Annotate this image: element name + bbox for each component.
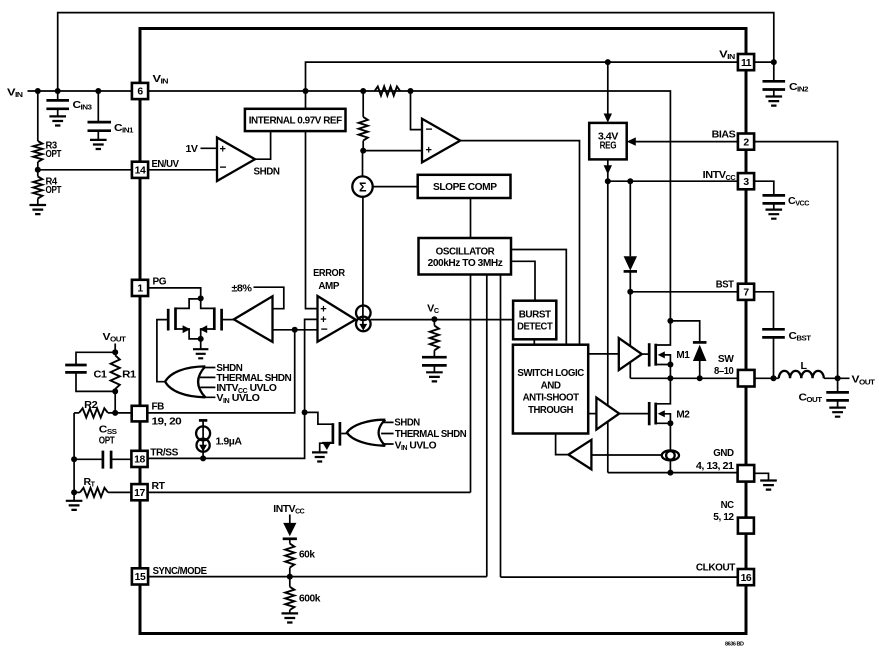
svg-text:15: 15	[135, 572, 146, 583]
transistor M1	[648, 343, 651, 366]
capacitor CIN3	[57, 91, 59, 100]
wire EN/UV	[38, 169, 217, 171]
svg-text:L: L	[801, 361, 807, 372]
transistor SS discharge FET	[305, 412, 333, 424]
driver M2 gate	[588, 413, 596, 415]
pin 14 EN/UV	[132, 162, 148, 178]
wire REF pass-through to error amp +	[306, 91, 318, 309]
svg-text:18: 18	[134, 455, 145, 466]
wire oscillator to RT	[470, 275, 472, 493]
wire oscillator to SYNC/MODE	[486, 275, 488, 577]
wire VIN top distribution	[58, 13, 774, 91]
svg-text:BIAS: BIAS	[712, 129, 736, 140]
op-amp PWM current comparator	[422, 119, 460, 163]
wire VIN to 3.4V REG with arrow	[607, 62, 609, 118]
svg-text:8–10: 8–10	[714, 366, 734, 377]
pin 18 TR/SS	[131, 451, 147, 467]
wire oscillator to CLKOUT	[500, 275, 502, 578]
wire VIN to pin 11	[306, 62, 747, 91]
wire sigma to slope comp	[373, 186, 418, 188]
box SWITCH LOGIC AND ANTI-SHOOT THROUGH	[513, 345, 588, 434]
svg-text:3: 3	[743, 177, 749, 188]
current sense element	[662, 450, 679, 460]
svg-text:OPT: OPT	[46, 185, 63, 196]
node sigma summer	[362, 151, 364, 177]
transistor M2	[648, 402, 651, 425]
ground CIN3	[49, 116, 66, 125]
resistor 60k	[289, 539, 291, 544]
svg-text:+: +	[426, 144, 432, 156]
svg-text:CLKOUT: CLKOUT	[696, 562, 736, 573]
wire BIAS to VOUT	[754, 142, 838, 379]
svg-text:200kHz TO 3MHz: 200kHz TO 3MHz	[428, 258, 503, 269]
wire VIN internal rail	[148, 91, 670, 321]
wire SHDN output to REF box	[255, 131, 271, 159]
svg-text:ERROR: ERROR	[313, 268, 345, 279]
wire driver return to GND rail	[607, 422, 609, 473]
wire R2/CSS/RT common	[73, 413, 75, 492]
svg-text:FB: FB	[152, 402, 164, 413]
svg-text:SW: SW	[718, 354, 734, 365]
pin 6 VIN	[132, 83, 148, 99]
wire OR gate 2 to FET gate	[341, 433, 348, 435]
svg-text:VIN UVLO: VIN UVLO	[216, 393, 260, 405]
svg-text:GND: GND	[713, 448, 733, 459]
svg-text:−: −	[426, 122, 433, 136]
svg-text:EN/UV: EN/UV	[152, 159, 180, 170]
wire FB to error amp minus and pm8 comparator	[273, 329, 318, 331]
svg-text:SYNC/MODE: SYNC/MODE	[153, 566, 208, 577]
svg-text:VIN UVLO: VIN UVLO	[395, 440, 437, 452]
svg-text:6: 6	[137, 87, 143, 98]
pin 15 SYNC/MODE	[132, 568, 148, 584]
logic-gate OR PG fault	[165, 366, 205, 397]
svg-text:OSCILLATOR: OSCILLATOR	[436, 246, 496, 257]
ground SS discharge FET	[312, 452, 327, 461]
svg-text:R1: R1	[122, 370, 136, 381]
wire INTVCC net	[608, 180, 738, 182]
svg-text:OPT: OPT	[99, 435, 116, 446]
wire CLKOUT internal	[501, 576, 738, 578]
pin 16 CLKOUT	[738, 569, 754, 585]
pin FB 19,20	[132, 406, 148, 422]
svg-text:11: 11	[741, 58, 752, 69]
capacitor CBST	[754, 292, 774, 330]
svg-text:NC: NC	[721, 500, 735, 511]
svg-text:RT: RT	[152, 481, 166, 492]
svg-text:−: −	[220, 160, 227, 174]
op-amp SHDN comparator	[217, 138, 255, 182]
svg-text:THERMAL SHDN: THERMAL SHDN	[395, 429, 466, 440]
diode M1 body	[670, 321, 699, 342]
wire oscillator to switch logic	[511, 250, 566, 345]
ground VC compensation	[426, 372, 443, 381]
wire INTVCC to lower driver	[607, 181, 609, 405]
svg-text:SWITCH LOGIC: SWITCH LOGIC	[517, 368, 584, 379]
svg-text:16: 16	[741, 573, 752, 584]
svg-text:M1: M1	[676, 350, 690, 361]
box BURST DETECT	[513, 301, 556, 340]
wire SYNC/MODE internal	[148, 576, 487, 578]
pin GND 4,13,21	[738, 465, 755, 482]
ground GND pin	[754, 473, 769, 480]
svg-text:4, 13, 21: 4, 13, 21	[696, 461, 735, 472]
capacitor CVCC	[754, 181, 774, 195]
svg-text:+: +	[220, 143, 226, 155]
ground 600k	[282, 613, 299, 622]
capacitor C1	[76, 352, 115, 365]
resistor R1	[111, 355, 120, 389]
pin NC 5,12	[738, 518, 754, 534]
box 3.4V REG	[589, 123, 627, 159]
capacitor CIN2	[773, 62, 775, 81]
pin 17 RT	[131, 484, 147, 500]
wire oscillator to burst detect	[511, 261, 535, 300]
node VIN pin11 junction + CIN2	[754, 61, 774, 63]
resistor 600k	[289, 577, 291, 587]
pin 3 INTVCC	[738, 173, 754, 189]
svg-text:AND: AND	[541, 380, 562, 391]
svg-text:1: 1	[137, 284, 143, 295]
wire sigma to error amp output	[362, 197, 364, 327]
svg-text:2: 2	[743, 137, 749, 148]
wire minus input PWM comparator	[411, 91, 423, 130]
svg-text:INTERNAL 0.97V REF: INTERNAL 0.97V REF	[249, 116, 342, 127]
wire RT internal	[148, 491, 471, 493]
wire PWM comparator output to switch logic	[460, 141, 579, 345]
wire VIN left rail	[28, 90, 141, 92]
svg-text:14: 14	[135, 166, 146, 177]
transistor PG pair	[176, 299, 215, 309]
svg-text:5, 12: 5, 12	[713, 512, 734, 523]
wire VC	[371, 319, 513, 321]
svg-text:±8%: ±8%	[232, 283, 252, 294]
svg-text:REG: REG	[600, 140, 617, 151]
wire FB net	[148, 330, 295, 413]
wire SW rail	[630, 377, 746, 379]
svg-text:DETECT: DETECT	[517, 322, 553, 333]
wire SS to error amp plus	[148, 319, 318, 458]
svg-text:8636 BD: 8636 BD	[725, 642, 744, 648]
svg-text:SHDN: SHDN	[254, 166, 280, 177]
svg-text:Σ: Σ	[359, 181, 367, 195]
box SLOPE COMP	[418, 175, 511, 198]
svg-text:17: 17	[134, 488, 145, 499]
IC boundary	[140, 29, 746, 634]
ground CIN2	[766, 97, 783, 106]
current source 1.9uA	[199, 419, 207, 422]
wire 3.4V REG output arrow to INTVCC net	[607, 159, 609, 181]
svg-text:600k: 600k	[299, 594, 321, 605]
capacitor VC compensation	[422, 357, 447, 365]
ground RT	[73, 492, 75, 500]
pin 11 VIN	[738, 54, 754, 70]
svg-text:SLOPE COMP: SLOPE COMP	[433, 182, 497, 193]
resistor VIN sense horizontal	[375, 86, 401, 95]
inductor L	[779, 371, 824, 378]
svg-text:SHDN: SHDN	[394, 418, 419, 429]
svg-text:1V: 1V	[186, 144, 199, 155]
diode BST bootstrap	[629, 181, 631, 256]
driver current sense amp	[591, 454, 661, 456]
resistor VC compensation	[433, 319, 435, 325]
svg-text:60k: 60k	[299, 550, 315, 561]
svg-text:THROUGH: THROUGH	[528, 405, 573, 416]
resistor R3	[37, 91, 39, 141]
svg-text:M2: M2	[676, 410, 690, 421]
svg-text:BURST: BURST	[519, 310, 552, 321]
svg-text:PG: PG	[153, 276, 167, 287]
pin 7 BST	[738, 284, 754, 300]
svg-text:BST: BST	[716, 280, 735, 291]
capacitor COUT	[837, 378, 839, 392]
wire PG net	[148, 288, 201, 299]
capacitor CIN1	[97, 91, 99, 122]
ground CIN1	[90, 140, 107, 149]
wire driver return to SW	[629, 362, 631, 378]
wire OR gate to left gate	[157, 320, 168, 382]
svg-text:TR/SS: TR/SS	[150, 448, 178, 459]
wire GND rail	[608, 472, 738, 474]
svg-text:OPT: OPT	[46, 149, 63, 160]
box OSCILLATOR	[419, 238, 512, 275]
pin SW 8-10	[738, 370, 755, 387]
logic-gate OR SS fault	[347, 420, 385, 446]
svg-text:7: 7	[743, 288, 749, 299]
wire pm8 comparator to right gate	[222, 319, 234, 321]
wire slope comp to oscillator	[470, 198, 472, 239]
svg-text:1.9µA: 1.9µA	[216, 437, 243, 448]
ground COUT	[829, 408, 846, 417]
svg-text:ANTI-SHOOT: ANTI-SHOOT	[523, 393, 580, 404]
driver M1 gate	[588, 353, 619, 355]
wire BIAS to 3.4V REG arrow	[629, 141, 738, 143]
current source error amp output	[356, 306, 371, 321]
wire plus input PWM comparator	[363, 150, 422, 152]
resistor VIN sense vertical	[362, 91, 364, 117]
wire burst detect to switch logic	[533, 339, 535, 344]
pin 1 PG	[132, 280, 148, 296]
wire BST net	[630, 291, 738, 293]
ground R4	[30, 205, 47, 214]
svg-text:C1: C1	[94, 370, 108, 381]
svg-text:AMP: AMP	[318, 281, 339, 292]
resistor R4	[33, 177, 42, 199]
svg-text:−: −	[321, 322, 328, 336]
svg-text:19, 20: 19, 20	[152, 417, 183, 428]
pin 2 BIAS	[738, 134, 754, 150]
ground CVCC	[766, 210, 783, 219]
wire SW to VOUT	[754, 377, 849, 379]
wire BST to upper driver	[629, 292, 631, 346]
box INTERNAL 0.97V REF	[245, 109, 346, 131]
ground PG pair	[200, 339, 202, 349]
